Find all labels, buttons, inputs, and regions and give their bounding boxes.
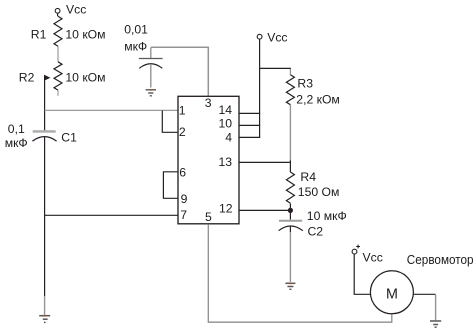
wire — [162, 111, 178, 133]
svg-text:M: M — [386, 286, 398, 302]
svg-text:R3: R3 — [297, 77, 313, 91]
svg-text:C1: C1 — [61, 130, 77, 144]
svg-text:6: 6 — [179, 165, 186, 179]
svg-text:2: 2 — [179, 125, 186, 139]
wire — [45, 109, 178, 111]
svg-text:Vcc: Vcc — [66, 2, 86, 16]
svg-text:10 мкФ: 10 мкФ — [307, 209, 347, 223]
svg-text:R4: R4 — [300, 170, 316, 184]
potentiometer R2 — [54, 62, 62, 90]
wire — [44, 137, 46, 296]
svg-text:10: 10 — [218, 117, 232, 131]
wire — [289, 105, 291, 161]
wire — [44, 75, 46, 131]
ground — [285, 283, 295, 289]
Vcc terminal motor — [356, 245, 360, 249]
resistor R1 — [54, 16, 62, 46]
wire — [150, 65, 152, 88]
ground — [39, 316, 50, 323]
R2 wiper arrow — [44, 75, 50, 81]
svg-text:9: 9 — [181, 192, 188, 206]
wire — [239, 161, 290, 163]
capacitor C1 — [33, 130, 56, 133]
junction — [288, 208, 293, 213]
resistor R4 — [286, 172, 294, 203]
svg-text:2,2 кОм: 2,2 кОм — [296, 92, 340, 106]
wire — [57, 13, 59, 16]
wire — [57, 90, 59, 96]
motor M — [370, 271, 413, 314]
wire — [289, 226, 291, 232]
svg-text:мкФ: мкФ — [5, 136, 28, 150]
wire — [239, 112, 260, 114]
svg-text:0,01: 0,01 — [124, 22, 148, 36]
wire — [163, 172, 178, 199]
wire — [239, 124, 260, 126]
ground — [146, 90, 156, 96]
wire — [354, 254, 370, 294]
svg-text:R1: R1 — [31, 28, 47, 42]
wire — [289, 160, 291, 172]
Vcc terminal right — [257, 34, 262, 39]
Vcc terminal top-left — [55, 8, 60, 13]
resistor R3 — [286, 75, 294, 105]
wire — [289, 204, 291, 220]
wire — [44, 296, 46, 315]
svg-text:14: 14 — [218, 103, 232, 117]
wire — [45, 214, 178, 216]
wire — [289, 69, 291, 75]
wire — [239, 136, 260, 138]
svg-text:мкФ: мкФ — [124, 39, 147, 53]
svg-text:10 кОм: 10 кОм — [65, 28, 105, 42]
wire — [260, 67, 291, 70]
svg-text:R2: R2 — [19, 70, 35, 84]
ground — [430, 321, 441, 327]
svg-text:Vcc: Vcc — [363, 251, 383, 265]
svg-text:10 кОм: 10 кОм — [65, 70, 105, 84]
svg-text:C2: C2 — [308, 224, 324, 238]
svg-text:5: 5 — [205, 210, 212, 224]
wire — [414, 293, 436, 295]
svg-text:13: 13 — [218, 155, 232, 169]
svg-text:3: 3 — [205, 96, 212, 110]
svg-text:12: 12 — [219, 202, 233, 216]
wire — [150, 48, 152, 59]
svg-text:1: 1 — [179, 104, 186, 118]
svg-text:Сервомотор: Сервомотор — [407, 253, 474, 267]
wire — [259, 39, 261, 138]
capacitor C2 — [279, 220, 302, 222]
wire — [57, 46, 59, 62]
svg-text:150 Ом: 150 Ом — [298, 185, 340, 199]
svg-text:Vcc: Vcc — [267, 31, 287, 45]
svg-text:4: 4 — [225, 131, 232, 145]
wire — [239, 209, 290, 211]
wire — [435, 294, 437, 320]
svg-text:7: 7 — [180, 208, 187, 222]
svg-text:0,1: 0,1 — [8, 122, 25, 136]
wire — [208, 225, 391, 322]
wire — [151, 47, 209, 96]
op-amp U1 (IC body) — [178, 96, 239, 224]
wire — [289, 232, 291, 282]
